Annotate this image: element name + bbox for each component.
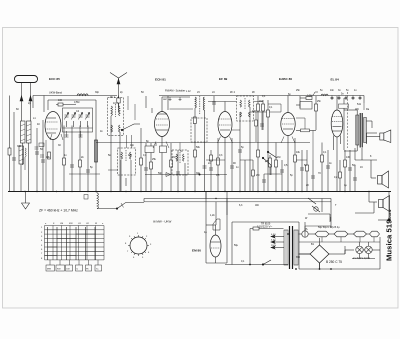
antenna AM <box>110 73 127 113</box>
tube pin stubs <box>50 134 295 148</box>
ground symbol left <box>22 192 30 210</box>
svg-text:Musica 519: Musica 519 <box>385 219 394 261</box>
svg-text:350: 350 <box>296 256 301 259</box>
svg-text:6,3V: 6,3V <box>271 240 276 242</box>
wire top AM rail <box>159 95 364 97</box>
EF89 cathode parts <box>209 150 357 192</box>
svg-text:2M: 2M <box>256 174 259 177</box>
below-bus wires <box>84 192 331 229</box>
coil bumps on FM rail <box>77 94 88 96</box>
power transformer T5 <box>284 226 298 269</box>
scattered value labels <box>16 89 372 263</box>
choke below bus <box>97 193 99 209</box>
junction dots bottom power wire <box>249 233 332 270</box>
svg-text:ZF 2: ZF 2 <box>230 91 236 94</box>
tube U6 EM80 magic eye <box>206 192 227 264</box>
wire top FM rail <box>33 95 117 97</box>
tube U2 ECH81 <box>155 112 170 192</box>
svg-text:TR 6100: TR 6100 <box>261 223 271 226</box>
dial pin numbers <box>125 233 152 259</box>
svg-text:1M: 1M <box>277 156 280 159</box>
wire label box FM-AM <box>117 96 190 113</box>
electrolytic capacitor row <box>302 231 380 237</box>
svg-text:10p: 10p <box>130 144 135 147</box>
tone capacitor row top right <box>313 92 364 110</box>
wire B+ rail <box>96 142 310 144</box>
IF can T3 <box>237 96 254 192</box>
svg-text:B 250 C 75: B 250 C 75 <box>326 260 342 264</box>
speaker wiring right <box>355 133 377 213</box>
svg-text:ECH 81: ECH 81 <box>155 78 166 82</box>
svg-text:LM: LM <box>60 223 63 225</box>
lamp LP2 <box>352 242 375 259</box>
table winding marks <box>45 230 105 256</box>
EF89 stage passives <box>212 96 270 192</box>
AM oscillator coils <box>191 96 207 192</box>
detector coil T3b <box>172 150 188 192</box>
antenna FM dipole <box>15 76 38 122</box>
svg-text:300: 300 <box>17 145 22 148</box>
speaker LS1 <box>380 130 391 143</box>
svg-text:50µ: 50µ <box>352 164 357 167</box>
switch S2 AF diagonal <box>262 151 277 175</box>
speaker LS2 <box>378 171 389 188</box>
switch S3 <box>117 202 126 208</box>
table row labels <box>41 223 104 271</box>
svg-text:0,5M: 0,5M <box>74 101 79 104</box>
svg-text:541: 541 <box>357 103 362 106</box>
svg-text:0,5M: 0,5M <box>307 95 312 98</box>
svg-text:6,3V: 6,3V <box>271 234 276 236</box>
tube U5 EL84 <box>331 110 343 192</box>
UKW unit trimmer box <box>63 108 93 137</box>
EL84 stage passives <box>315 96 353 192</box>
coil L1 FM antenna transformer <box>21 121 32 192</box>
dial circle <box>128 235 149 256</box>
tube labels <box>49 77 342 264</box>
svg-text:50p: 50p <box>158 172 163 175</box>
svg-text:UKW-Band: UKW-Band <box>49 91 62 95</box>
svg-text:100: 100 <box>58 99 63 102</box>
svg-text:FM/AM - Schalter: FM/AM - Schalter <box>165 89 185 93</box>
svg-text:ECC 85: ECC 85 <box>49 77 60 81</box>
power section wiring <box>225 222 380 269</box>
svg-text:EM 80: EM 80 <box>192 249 201 253</box>
vertical model text Musica 519 <box>385 209 394 261</box>
svg-text:25n: 25n <box>296 89 301 92</box>
svg-text:50µ: 50µ <box>234 244 239 247</box>
svg-text:EABC 80: EABC 80 <box>279 77 292 81</box>
ECC85 stage passives <box>33 96 98 192</box>
lamp LP1 <box>356 242 363 259</box>
capacitor C1 <box>35 120 45 192</box>
feedback dashed line <box>347 92 349 148</box>
svg-text:10,7: 10,7 <box>113 102 118 105</box>
svg-text:1M: 1M <box>172 156 175 159</box>
switch S1 band switch <box>121 124 140 186</box>
volume control P1 <box>265 155 272 175</box>
svg-text:1,2k: 1,2k <box>210 214 215 217</box>
svg-text:ZF = 460 kHz + 10,7 MHz: ZF = 460 kHz + 10,7 MHz <box>39 209 78 213</box>
junction dots on ground bus <box>24 191 369 199</box>
svg-text:EL 84: EL 84 <box>331 78 339 82</box>
svg-text:460: 460 <box>252 110 257 113</box>
ECH81 grid components <box>140 96 228 192</box>
svg-text:2 x 6,3 V 0,3 A: 2 x 6,3 V 0,3 A <box>353 256 370 260</box>
svg-text:25n: 25n <box>317 100 322 103</box>
wire ground bus <box>8 191 391 193</box>
speaker LS3 <box>379 196 390 212</box>
coil L2 lower <box>19 143 44 192</box>
svg-text:Graetz: Graetz <box>388 209 392 220</box>
output transformer T4 <box>339 98 380 151</box>
tube U3 EF89 <box>218 102 232 192</box>
heater wires to EM80 <box>206 224 216 226</box>
resistor R1 left column <box>8 96 16 192</box>
tube U1 ECC85 <box>45 112 61 192</box>
volume pot box right <box>296 102 316 132</box>
svg-text:L 12: L 12 <box>186 90 191 93</box>
coil winding table grid <box>45 226 105 272</box>
svg-text:30p: 30p <box>196 172 201 175</box>
svg-text:50µ 50µ C 47µ B 4µ: 50µ 50µ C 47µ B 4µ <box>318 226 340 229</box>
EABC80 stage passives <box>275 96 313 192</box>
svg-text:ZF 1: ZF 1 <box>110 96 116 99</box>
IF can T1 <box>108 98 124 192</box>
svg-text:250V: 250V <box>271 245 277 247</box>
svg-text:⊞ MW - UKW: ⊞ MW - UKW <box>153 220 172 224</box>
mid horizontal links <box>69 96 313 174</box>
tube U4 EABC80 <box>250 96 295 192</box>
svg-text:10n: 10n <box>330 89 335 92</box>
rectifier BR1 <box>299 238 345 269</box>
svg-text:EF 89: EF 89 <box>219 77 228 81</box>
table connector boxes <box>46 260 102 271</box>
IF can T2 <box>118 148 136 192</box>
wire right edge return <box>378 192 390 222</box>
svg-text:460: 460 <box>128 154 133 157</box>
svg-text:1M: 1M <box>259 100 262 103</box>
annotation texts <box>39 89 370 261</box>
tone switch cluster bottom right <box>308 198 331 222</box>
svg-text:130: 130 <box>346 156 351 159</box>
svg-text:30p: 30p <box>95 91 100 94</box>
